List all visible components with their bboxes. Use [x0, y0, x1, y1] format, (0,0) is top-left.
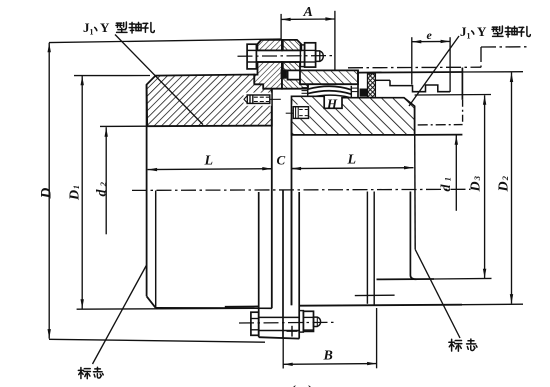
svg-text:D: D: [68, 190, 83, 201]
svg-text:1: 1: [90, 28, 94, 37]
svg-text:Y: Y: [100, 20, 110, 35]
left hub left face lower half: [146, 85, 148, 297]
leader line left J1 Y shaft hole label: [115, 35, 203, 125]
svg-text:B: B: [323, 349, 333, 364]
label mark (bottom left): [78, 368, 90, 379]
right hub left face lower half: [291, 191, 293, 306]
phantom outline horizontal of long hub variant: [348, 66, 481, 69]
svg-text:Y: Y: [477, 24, 487, 39]
internal gear spline lines left of tooth: [302, 87, 309, 89]
dimension line d2 (left hub bore diameter), half-arrow style: [105, 127, 107, 234]
dimension L (left hub length): [148, 168, 272, 171]
svg-text:D: D: [39, 188, 55, 200]
castellated keyway outline on hub end: [390, 80, 450, 91]
right hub end face edge seen through bore: [414, 106, 417, 249]
end cap ring cross-hatched: [368, 74, 376, 98]
sleeve inner lip bottom edge left part: [263, 88, 308, 90]
bottom bolt protruding end: [314, 317, 321, 326]
svg-text:1: 1: [443, 177, 453, 181]
extension of D2 from hub top: [462, 71, 523, 73]
left flange rim upper band (left of joint) hatched: [257, 40, 282, 51]
svg-text:(: (: [291, 384, 296, 387]
screw pocket in left hub: [244, 93, 272, 106]
svg-text:2: 2: [98, 181, 108, 187]
dimension A with extension lines: [281, 18, 335, 20]
flange rim left face lower half: [258, 192, 260, 337]
bottom bolt centerline: [239, 321, 336, 324]
left hub bottom chamfer: [147, 296, 156, 308]
extension line bottom for D1: [77, 307, 272, 310]
bottom bolt washer: [299, 311, 303, 333]
svg-text:3: 3: [472, 175, 482, 181]
sleeve right end face: [357, 70, 359, 97]
flange rim right face lower half: [298, 192, 300, 339]
tooth right flank reference line: [350, 86, 352, 110]
extension line top for D1: [74, 75, 150, 77]
bottom bolt hex head: [251, 312, 259, 335]
svg-text:A: A: [303, 5, 313, 20]
right hub lower: step section right face with fillet: [410, 192, 416, 280]
svg-text:2: 2: [500, 175, 510, 181]
bottom bolt shank: [259, 316, 300, 318]
leader line left mark label: [93, 266, 147, 365]
left hub bottom edge: [156, 307, 272, 309]
extension line for d2: [100, 125, 148, 127]
main axis centerline: [132, 189, 470, 190]
right hub lower: cap silhouette lines: [366, 192, 368, 304]
extension line bottom for D: [49, 339, 265, 342]
flange joint face lower half: [282, 191, 284, 339]
screw pocket in right hub: [292, 105, 309, 120]
svg-text:d: d: [95, 189, 110, 197]
svg-text:1: 1: [467, 32, 471, 41]
svg-text:L: L: [204, 154, 214, 169]
phantom bore horizontal: [418, 124, 463, 126]
dimension line D3 (hub step diameter): [484, 95, 486, 278]
top bolt centerline: [238, 55, 336, 58]
svg-text:d: d: [439, 184, 454, 192]
svg-text:D: D: [497, 181, 512, 192]
top bolt protruding end with chamfer: [316, 51, 324, 62]
crowned gear tooth arcs: [308, 86, 352, 90]
top bolt nut: [305, 43, 316, 67]
svg-text:): ): [308, 384, 313, 387]
extension line top for D: [49, 39, 281, 43]
dimension line d1 (right hub bore diameter), half-arrow style: [455, 135, 457, 211]
phantom outline top step to right edge: [481, 46, 530, 48]
top bolt shank: [256, 49, 304, 51]
svg-text:e: e: [427, 28, 433, 42]
tooth left flank: [307, 85, 309, 97]
right hub step bottom edge: [377, 278, 435, 280]
dimension line D1 (hub diameter): [81, 76, 83, 309]
right flange rim upper band hatched: [282, 40, 301, 51]
right hub end face upper: [461, 68, 463, 100]
phantom outline vertical step: [480, 47, 482, 67]
dimension e with extension lines: [412, 40, 450, 42]
dimension C (gap between hubs), arrows outside: [262, 168, 272, 170]
svg-text:D: D: [469, 181, 484, 192]
right hub sectioned block with hatching: [292, 96, 415, 135]
svg-text:L: L: [347, 153, 357, 168]
cross mark + at bottom joint: [287, 330, 298, 332]
flange rim bottom edge: [259, 337, 300, 338]
left hub sectioned block with hatching: [147, 75, 272, 127]
right hub flange bottom edge: [299, 305, 462, 306]
flange joint face line upper: [282, 40, 284, 51]
set screw S2 in right hub, pointing left: [293, 107, 308, 119]
right flange rim lower region and inner lip hatched: [282, 62, 308, 89]
tick mark crossing cap silhouette lower right: [355, 294, 395, 296]
dimension L (right hub length): [292, 167, 414, 170]
right seal ring (solid black): [360, 89, 368, 97]
dimension line D2 (right hub flange diameter): [511, 73, 513, 304]
sleeve body right of rim, hatched: [300, 70, 358, 84]
set screw S1 in left hub, pointing left: [247, 95, 270, 103]
left hub right end face: [271, 82, 273, 308]
leader line right J1 Y shaft hole label: [409, 36, 459, 106]
dimension line D (outer flange diameter), vertical at left: [48, 43, 50, 339]
sleeve bottom edge left side: [225, 305, 259, 307]
set screw S1 centerline: [270, 98, 281, 100]
leader line right mark label: [415, 249, 460, 338]
svg-text:1: 1: [71, 185, 81, 189]
right hub bore line to end face: [415, 134, 463, 136]
extension line bottom for D3: [434, 277, 492, 280]
right hub top edge: [358, 71, 462, 74]
extension of D2 from hub bottom: [462, 303, 523, 306]
svg-text:C: C: [277, 153, 286, 168]
right hub left end face: [291, 119, 293, 306]
top bolt hex head: [247, 44, 256, 69]
gasket gap at flange joint (solid black): [281, 69, 287, 78]
left flange rim lower region hatched: [254, 62, 282, 89]
cap step line: [375, 79, 390, 81]
label mark (bottom right): [449, 339, 462, 351]
top bolt washer: [300, 45, 304, 67]
bottom bolt nut: [303, 311, 313, 331]
internal gear spline lines right of tooth: [352, 87, 359, 89]
left hub chamfer edge line in outside view: [155, 191, 157, 308]
set screw S2 centerline: [286, 112, 294, 114]
dimension B with extension lines: [283, 363, 376, 366]
extension line top for D3: [415, 94, 491, 97]
phantom bore vertical at hub end face: [462, 100, 464, 125]
